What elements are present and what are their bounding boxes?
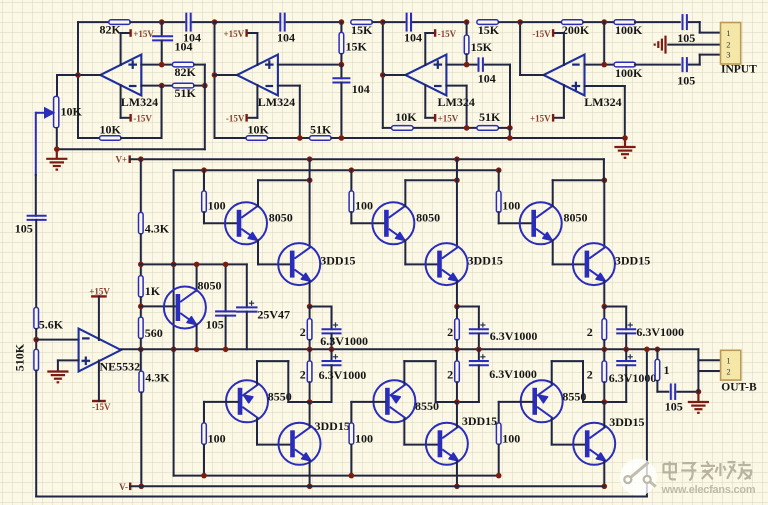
junction s2 plus top [339, 19, 345, 25]
power +15V bar s1 [129, 29, 131, 37]
svg-text:3DD15: 3DD15 [615, 253, 650, 267]
wire 2b2 bottom lead [456, 382, 458, 402]
svg-text:3DD15: 3DD15 [609, 415, 644, 429]
power -15V bar s4 [552, 29, 554, 37]
wire 100t2 top lead [350, 170, 352, 191]
wire 2b3 bottom lead [603, 382, 605, 402]
wire s3 row c [499, 127, 510, 129]
junction V+ 4.3K [138, 156, 144, 162]
connector J2 OUT-B [721, 350, 741, 380]
junction Q5 collector [194, 262, 200, 268]
wire NE +15V stem [98, 296, 100, 340]
wire 8550-3 collector down [551, 419, 553, 445]
junction 100b1 rail [201, 473, 207, 479]
wire Q5 base [141, 305, 176, 307]
resistor 200K feedback [562, 20, 584, 25]
svg-text:OUT-B: OUT-B [721, 381, 757, 393]
transistor 3DD15 bottom 1 [279, 423, 321, 465]
svg-text:8050: 8050 [564, 211, 588, 225]
wire 3DD15t2 collector [456, 180, 458, 247]
power -15V bar s1 [129, 114, 131, 122]
wire s1 +15V stub [121, 32, 131, 34]
wire s4 +15V stem [563, 85, 565, 118]
wire feedback drop [646, 349, 648, 496]
wire s4 plus input [585, 85, 625, 87]
svg-text:2: 2 [726, 39, 730, 49]
wire 2t1 top lead [309, 307, 311, 319]
junction s3 row minus [464, 125, 470, 131]
svg-text:8050: 8050 [416, 211, 440, 225]
svg-text:3DD15: 3DD15 [462, 414, 497, 428]
ground row138 [614, 138, 635, 158]
wire 15K s3 right lead [499, 21, 520, 23]
svg-text:+15V: +15V [133, 29, 154, 39]
wire s2 out vertical [214, 22, 216, 138]
junction drive rail 100 top 2 [349, 167, 355, 173]
svg-text:15K: 15K [351, 23, 373, 37]
wire 15Kv s2 top lead [340, 22, 342, 32]
wire 3DD15b3 emitter [603, 461, 605, 486]
wire 3DD15t1 base wire [258, 263, 290, 265]
resistor 2 bottom 1 [307, 361, 312, 383]
wire input column top [35, 175, 37, 216]
svg-text:4.3K: 4.3K [145, 371, 170, 385]
svg-text:-15V: -15V [133, 113, 152, 123]
wire input bottom b [699, 55, 701, 65]
wire s4 fb vertical [603, 22, 605, 65]
svg-text:2: 2 [447, 325, 453, 339]
transistor 8550 3 [521, 380, 563, 422]
wire s3 plus input b [485, 64, 510, 66]
junction collector node 2 [454, 177, 460, 183]
wire s3 minus input [446, 85, 466, 87]
resistor 15K s2 vert [339, 32, 344, 54]
wire pot bottom lead [56, 128, 58, 149]
wire s2 row b [268, 137, 310, 139]
svg-text:INPUT: INPUT [721, 64, 757, 76]
resistor 100K input bottom [614, 62, 636, 67]
wire s2 -15V stub [247, 117, 258, 119]
wire out column [697, 349, 699, 391]
wire s2 +15V stub [247, 32, 258, 34]
wire output rail [121, 348, 699, 350]
wire 8550-2 collector down [403, 419, 405, 445]
svg-text:15K: 15K [346, 40, 368, 54]
resistor 10K s1 bottom [100, 136, 122, 141]
junction 100b3 rail [496, 473, 502, 479]
wire top rail s4c [635, 21, 680, 23]
wire Q3 collector over [553, 179, 605, 181]
wire s2 minus input [278, 85, 300, 87]
wire 2t3 top lead [603, 307, 605, 319]
wire cap105z to ground [677, 391, 698, 393]
svg-text:105: 105 [677, 74, 695, 88]
resistor 10K s3 [392, 126, 414, 131]
svg-text:100: 100 [355, 432, 373, 446]
junction row138 ground end [622, 135, 628, 141]
wire capt3 bottom lead [625, 334, 627, 350]
svg-text:100: 100 [355, 198, 373, 212]
wire 4.3K1 bottom lead [140, 234, 142, 275]
svg-text:6.3V1000: 6.3V1000 [489, 367, 537, 381]
wire s1 minus input [141, 85, 172, 87]
resistor 5.6K [34, 307, 39, 329]
wire node3 to cap [604, 306, 626, 308]
junction collector node 1 [307, 177, 313, 183]
resistor 15K s3 top [477, 20, 499, 25]
svg-text:6.3V1000: 6.3V1000 [609, 371, 657, 385]
junction 2t2 rail [454, 347, 460, 353]
junction Q5 emitter rail [194, 347, 200, 353]
wire s3 plus drop [509, 65, 511, 128]
wire zobel to cap [657, 391, 668, 393]
wire 3DD15b2 base wire [404, 444, 437, 446]
wire s1 -15V stem [120, 85, 122, 118]
resistor 1K [139, 276, 144, 298]
wire 2b1 bottom lead [309, 382, 311, 402]
watermark logo [620, 459, 657, 496]
svg-text:25V47: 25V47 [257, 307, 290, 321]
power -15V bar NE [92, 400, 106, 402]
wire Q2 collector up [404, 180, 406, 206]
svg-text:LM324: LM324 [438, 95, 475, 109]
wire cap25V47 bottom lead [246, 312, 248, 350]
svg-text:51K: 51K [310, 123, 332, 137]
junction capt2 rail [476, 347, 482, 353]
wire 100t2 bottom lead [350, 212, 352, 223]
wire cap105m top lead [225, 264, 227, 311]
wire 2b3 top lead [603, 349, 605, 361]
junction bias node2 [138, 304, 144, 310]
wire 1K to 560 [140, 297, 142, 317]
wire Q2 emitter down [404, 241, 406, 265]
junction 3DD15b3 Vminus [602, 484, 608, 490]
wire 15Kv s3 top lead [466, 22, 468, 35]
wire capb1 bottom lead [331, 365, 333, 402]
svg-text:3DD15: 3DD15 [468, 253, 503, 267]
potentiometer wiper arrow [35, 108, 53, 117]
resistor 51K s1 [172, 83, 194, 88]
wire top rail s4a [520, 21, 561, 23]
junction s4 fb top [601, 19, 607, 25]
svg-text:2: 2 [447, 367, 453, 381]
wire 8550-3 emitter up [551, 361, 553, 384]
wire capt2 bottom lead [478, 334, 480, 350]
svg-text:560: 560 [145, 326, 163, 340]
wire 100b2 bottom lead [350, 445, 352, 476]
transistor 3DD15 top 1 [278, 243, 320, 285]
junction s3 plus top [464, 19, 470, 25]
svg-text:-15V: -15V [226, 113, 245, 123]
svg-text:82K: 82K [175, 65, 197, 79]
junction node402 2 [454, 399, 460, 405]
svg-text:104: 104 [352, 82, 370, 96]
junction zobel top [655, 347, 661, 353]
wire top rail s1c [193, 21, 215, 23]
capacitor 105 zobel [671, 383, 675, 400]
power +15V bar NE [91, 295, 107, 297]
svg-text:+15V: +15V [224, 29, 245, 39]
wire Q5 collector [196, 264, 198, 290]
wire pot wiper net blue [35, 113, 37, 175]
wire 2t2 bottom lead [456, 340, 458, 349]
transistor 8550 1 [226, 380, 268, 422]
wire 2t1 bottom lead [309, 340, 311, 349]
svg-text:2: 2 [300, 325, 306, 339]
svg-text:100: 100 [208, 198, 226, 212]
junction emitter node 3 [602, 304, 608, 310]
junction s3 row right [507, 125, 513, 131]
wire s1 82K right lead [194, 64, 205, 66]
wire 2b2 top lead [456, 349, 458, 361]
wire Q1 collector over [258, 179, 310, 181]
resistor 2 top 3 [602, 319, 607, 341]
svg-text:1: 1 [664, 363, 670, 377]
wire top rail s1a [78, 21, 109, 23]
junction node402 1 [307, 399, 313, 405]
transistor Q3 8050 [520, 202, 562, 244]
svg-text:1: 1 [726, 28, 730, 38]
wire s1 minus drop [161, 86, 163, 138]
wire s3 row b [414, 127, 476, 129]
wire s1 -15V stub [121, 117, 131, 119]
svg-text:15K: 15K [478, 23, 500, 37]
wire 4.3K1 top lead [140, 159, 142, 212]
svg-text:100K: 100K [615, 66, 643, 80]
resistor 15K s3 vert [464, 35, 469, 55]
capacitor 104 coupling s2 [186, 13, 190, 32]
wire s4 out vertical [519, 22, 521, 75]
power -15V bar s2 [245, 114, 247, 122]
wire s3 +15V stem [424, 85, 426, 118]
wire 5.6K to node [35, 329, 37, 350]
wire 8550-1 rect bottom [288, 401, 309, 403]
connector J1 INPUT [721, 23, 741, 65]
wire Q2 base [351, 222, 384, 224]
svg-text:510K: 510K [13, 343, 27, 371]
junction s2 out top [212, 19, 218, 25]
resistor 100 bottom 2 [349, 423, 354, 445]
svg-text:LM324: LM324 [121, 95, 158, 109]
wire 3DD15b2 emitter [456, 461, 458, 486]
wire input top b [699, 22, 701, 32]
capacitor 105 mid [215, 311, 236, 315]
watermark text brand [663, 461, 751, 480]
svg-text:3DD15: 3DD15 [320, 253, 355, 267]
wire 3DD15b1 collector [309, 402, 311, 427]
wire s1 plus input [141, 64, 172, 66]
wire NE minus input [36, 339, 78, 341]
junction pot ground [54, 146, 60, 152]
resistor 100 top 2 [349, 191, 354, 213]
ground pot [46, 149, 67, 169]
wire top rail s3a [383, 21, 405, 23]
svg-text:+15V: +15V [438, 113, 459, 123]
svg-text:www.elecfans.com: www.elecfans.com [661, 484, 756, 496]
junction s2 out mid [212, 72, 218, 78]
resistor 51K s3 [477, 126, 499, 131]
svg-text:2: 2 [587, 367, 593, 381]
wire capb1 top lead [331, 349, 333, 361]
wire s3 apex [383, 74, 406, 76]
ground NE plus [47, 372, 68, 383]
wire Q1 emitter down [257, 241, 259, 265]
wire capb2 bottom lead [478, 365, 480, 402]
svg-text:LM324: LM324 [258, 95, 295, 109]
resistor 510K [34, 349, 39, 371]
resistor 100 top 3 [496, 191, 501, 213]
svg-text:100: 100 [502, 432, 520, 446]
svg-text:100: 100 [502, 198, 520, 212]
svg-text:LM324: LM324 [584, 95, 621, 109]
power +15V bar s3 [434, 114, 436, 122]
wire 8550-2 rect bottom [436, 401, 457, 403]
wire s1 fb vertical [204, 65, 206, 150]
wire node2 to cap [457, 306, 479, 308]
svg-text:3: 3 [726, 50, 730, 60]
svg-text:104: 104 [175, 40, 193, 54]
junction 560 output rail [138, 347, 144, 353]
wire 15Kv s3 bottom lead [466, 54, 468, 64]
wire s2 plus input [278, 64, 342, 66]
wire 3DD15b3 collector [603, 402, 605, 427]
junction capt1 rail [329, 347, 335, 353]
wire 510K bottom lead [35, 371, 37, 497]
junction 3DD15b2 Vminus [454, 484, 460, 490]
svg-text:2: 2 [726, 366, 730, 376]
svg-text:V-: V- [119, 482, 128, 492]
junction drive node1 [171, 262, 177, 268]
wire 100b3 bottom lead [498, 445, 500, 476]
wire Q3 collector up [552, 180, 554, 206]
wire s3 row stub down [509, 128, 511, 138]
resistor 100 top 1 [202, 191, 207, 213]
wire 8550-3 rect bottom [583, 401, 604, 403]
wire input bottom a [689, 64, 700, 66]
wire OUT-B pin2 stub [698, 370, 720, 372]
svg-text:100K: 100K [615, 23, 643, 37]
resistor 4.3K lower [139, 371, 144, 393]
resistor 560 [139, 317, 144, 339]
svg-text:15K: 15K [471, 40, 493, 54]
wire Q3 base [499, 222, 532, 224]
wire 8550-2 rect top [404, 360, 435, 362]
junction node A top [159, 19, 165, 25]
resistor 2 top 2 [455, 319, 460, 341]
wire 100t3 top lead [498, 170, 500, 191]
capacitor 104 shunt s1 [152, 36, 173, 40]
wire 15Kv s2 bottom lead [340, 54, 342, 65]
wire s3 -15V stub [425, 32, 435, 34]
resistor 1 zobel [655, 359, 660, 381]
capacitor 6.3V1000 bottom 1 [322, 361, 342, 365]
wire 100b2 top lead [350, 402, 352, 423]
junction stage1 output [75, 72, 81, 78]
wire NE plus input [58, 359, 79, 361]
junction bias node1 [138, 262, 144, 268]
wire stage1 output vertical [77, 22, 79, 138]
wire NE -15V stem [98, 361, 100, 402]
wire top rail s3b [413, 21, 467, 23]
resistor 51K s2 [310, 136, 332, 141]
wire s1 +15V stem [120, 33, 122, 65]
svg-text:1K: 1K [145, 284, 161, 298]
junction s2 fb node [297, 135, 303, 141]
wire top rail s2a [215, 21, 279, 23]
resistor 2 bottom 2 [455, 361, 460, 383]
wire capt1 bottom lead [331, 334, 333, 350]
svg-text:10K: 10K [248, 123, 270, 137]
wire 8550-1 rect right [287, 361, 289, 402]
junction s1 plus input [159, 62, 165, 68]
svg-text:6.3V1000: 6.3V1000 [320, 334, 368, 348]
capacitor 105 input [27, 216, 47, 220]
transistor 3DD15 top 2 [426, 243, 468, 285]
wire 8550-1 base [204, 401, 238, 403]
transistor Q5 8050 [164, 287, 206, 329]
wire V+ rail [130, 158, 604, 160]
svg-text:+15V: +15V [530, 113, 551, 123]
svg-text:6.3V1000: 6.3V1000 [319, 368, 367, 382]
svg-text:104: 104 [404, 31, 422, 45]
transistor 3DD15 bottom 2 [426, 423, 468, 465]
wire drive column [173, 170, 175, 475]
resistor 82K s1 input [172, 62, 194, 67]
power +15V bar s4 [552, 114, 554, 122]
wire s3 row a [383, 127, 391, 129]
wire s1 10K row a [78, 137, 99, 139]
wire node1 to cap [310, 306, 332, 308]
wire 8550-3 rect top [552, 360, 583, 362]
wire 100b1 top lead [203, 402, 205, 423]
wire input column mid [35, 220, 37, 308]
svg-text:200K: 200K [562, 23, 590, 37]
junction NE minus node [33, 337, 39, 343]
junction emitter node 2 [454, 304, 460, 310]
svg-text:4.3K: 4.3K [145, 222, 170, 236]
junction output fb [644, 347, 650, 353]
wire s4 -15V stub [553, 32, 564, 34]
wire feedback rail bottom [36, 496, 647, 498]
wire s2 10K lead [215, 137, 247, 139]
svg-text:6.3V1000: 6.3V1000 [636, 325, 684, 339]
wire 8550-1 emitter up [256, 361, 258, 384]
wire 3DD15b2 collector [456, 402, 458, 427]
junction drive rail 100 top 1 [201, 167, 207, 173]
wire input top a [689, 21, 700, 23]
junction s1 minus input [159, 83, 165, 89]
wire node402 2 [457, 401, 479, 403]
wire s2 cap104 bottom lead [340, 83, 342, 139]
resistor 100 bottom 1 [202, 423, 207, 445]
junction cap105m rail [223, 347, 229, 353]
transistor 3DD15 top 3 [573, 243, 615, 285]
junction s3 out top [380, 19, 386, 25]
wire 3DD15b1 base wire [257, 444, 290, 446]
capacitor 6.3V1000 bottom 2 [469, 361, 489, 365]
junction rail x172 [171, 347, 177, 353]
wire V+ rail corner down [603, 159, 605, 180]
capacitor 6.3V1000 top 1 [322, 329, 342, 333]
wire node402 1 [310, 401, 332, 403]
wire pot top vertical [56, 75, 58, 96]
wire 3DD15t1 emitter [309, 281, 311, 306]
wire cap25V47 top lead [246, 264, 248, 307]
wire 560 to rail [140, 339, 142, 350]
svg-text:3DD15: 3DD15 [315, 419, 350, 433]
capacitor 104 coupling s3 [407, 13, 411, 32]
wire 3DD15t3 collector [603, 180, 605, 247]
